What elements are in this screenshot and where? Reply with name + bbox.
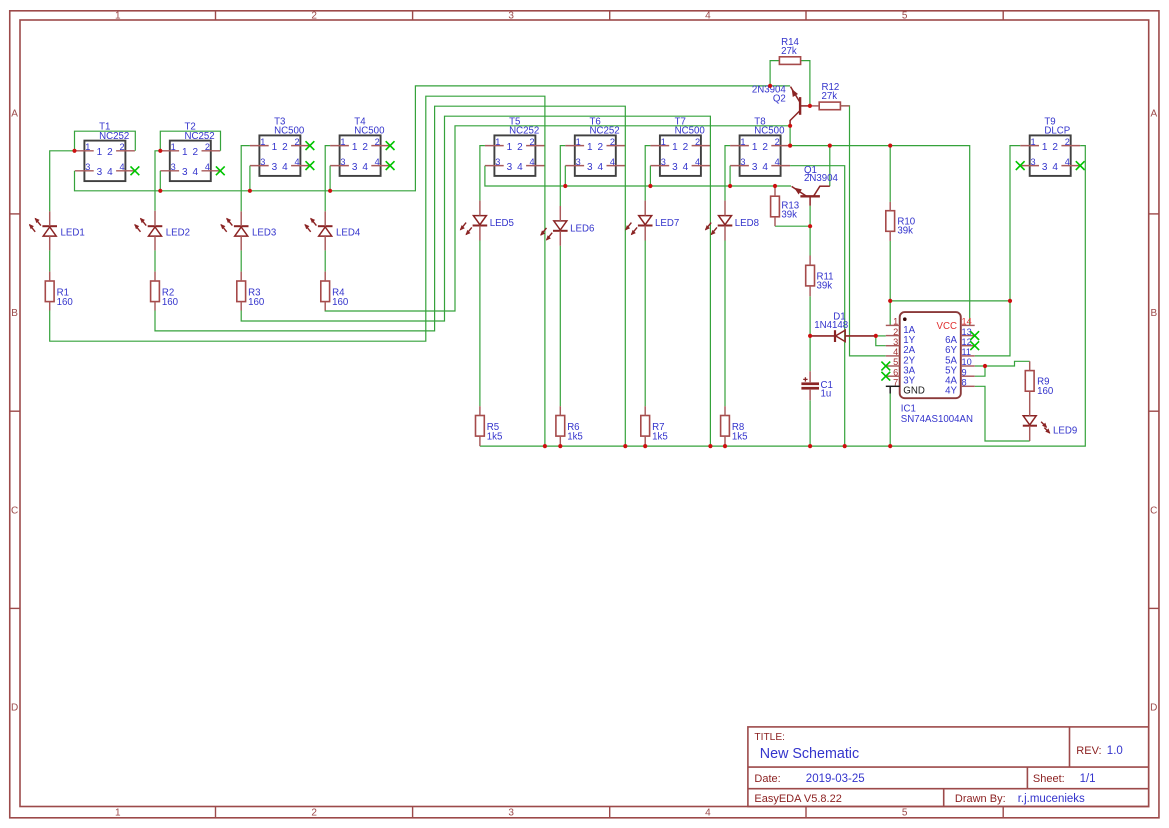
component T8 (NC500) 4-pin box [730,116,790,175]
svg-text:2: 2 [610,137,615,147]
wire: Q1 base node down to R11 [809,226,811,255]
svg-text:LED8: LED8 [735,218,759,229]
wire: LED4 to R4 [324,250,326,271]
svg-text:Drawn By:: Drawn By: [955,793,1006,805]
svg-text:2: 2 [375,137,380,147]
svg-text:5: 5 [902,11,908,22]
svg-text:C: C [1150,505,1157,516]
svg-text:8: 8 [962,378,967,388]
wire: LED8 to R8 [724,241,726,407]
svg-text:2: 2 [598,142,604,153]
svg-text:6: 6 [893,367,898,377]
LED LED6 (pointing down) [540,221,594,241]
junction T6 pin3 / bus [563,184,567,188]
junction R10 / VCC rail [888,144,892,148]
wire: R13 bottom to Q1 base node [775,225,810,227]
junction IC pins 9-10 node [983,364,987,368]
svg-text:New Schematic: New Schematic [760,746,859,762]
svg-text:4: 4 [107,167,113,178]
IC1 SN74AS1004AN [881,312,979,425]
wire: 1A node to T9 pin1 riser [890,300,1010,302]
svg-text:1: 1 [752,142,758,153]
svg-text:4: 4 [375,157,380,167]
transistor Q1 2N3904 [792,165,839,226]
wire: LED5 to R5 [479,241,481,407]
svg-text:NC500: NC500 [354,126,385,137]
junction T9 pin1 riser / 1A node [1008,299,1012,303]
junction T3 pin3 / bus [248,189,252,193]
component T9 (DLCP) 4-pin box [1016,116,1085,175]
svg-text:1: 1 [1031,137,1036,147]
svg-text:1: 1 [171,142,176,152]
resistor R5 (1k5) [476,416,503,443]
svg-text:1k5: 1k5 [652,431,668,442]
svg-text:3: 3 [171,162,176,172]
svg-text:4: 4 [294,157,299,167]
svg-text:A: A [11,108,18,119]
svg-text:3: 3 [507,162,513,173]
svg-text:1k5: 1k5 [567,431,583,442]
svg-text:1/1: 1/1 [1080,773,1096,785]
svg-text:NC252: NC252 [509,126,539,137]
junction R6 / gnd bus [558,444,562,448]
svg-text:4Y: 4Y [945,386,957,397]
svg-text:1: 1 [340,137,345,147]
svg-text:4: 4 [683,162,689,173]
component T4 (NC500) 4-pin box [330,116,394,175]
junction Q2 base / R12 / R14 [808,104,812,108]
wire: T4 pin3 to bus [329,166,331,191]
svg-text:3: 3 [576,157,581,167]
svg-text:3: 3 [508,11,514,22]
no-connect X on T4 pin 2 [386,141,395,150]
svg-text:4: 4 [119,162,124,172]
svg-text:1: 1 [1042,142,1048,153]
svg-text:2: 2 [695,137,700,147]
wire: Q2 collector to VCC rail [789,124,791,146]
svg-text:3: 3 [1031,157,1036,167]
svg-text:2: 2 [107,147,113,158]
svg-text:NC252: NC252 [99,131,129,142]
svg-text:1: 1 [672,142,678,153]
svg-text:3: 3 [672,162,678,173]
component T3 (NC500) 4-pin box [250,116,314,175]
wire: LED7 to R7 [644,241,646,407]
svg-text:2: 2 [775,137,780,147]
svg-text:GND: GND [903,386,925,397]
svg-text:EasyEDA V5.8.22: EasyEDA V5.8.22 [754,793,841,805]
svg-text:5: 5 [893,357,898,367]
svg-text:NC252: NC252 [590,126,620,137]
svg-text:LED1: LED1 [61,227,85,238]
LED LED1 (pointing up) [29,218,85,239]
LED LED3 (pointing up) [220,218,276,239]
svg-text:1u: 1u [821,388,832,399]
svg-text:1: 1 [507,142,513,153]
wire: T6 pin3 to middle bus [564,166,566,186]
svg-text:r.j.mucenieks: r.j.mucenieks [1018,793,1085,805]
svg-text:1: 1 [272,142,278,153]
wire: T9 pin1 riser / IC pin11 [975,146,1021,356]
wire: T1-T4 pin3 bus rising to Q2 emitter line [75,86,791,191]
junction R10 / 1A node [888,299,892,303]
svg-text:SN74AS1004AN: SN74AS1004AN [901,414,973,425]
svg-text:VCC: VCC [937,321,957,332]
svg-text:4: 4 [193,167,199,178]
svg-text:DLCP: DLCP [1044,126,1070,137]
svg-text:14: 14 [962,317,972,327]
svg-text:LED3: LED3 [252,227,276,238]
svg-text:1: 1 [182,147,188,158]
svg-text:4: 4 [205,162,210,172]
svg-text:4: 4 [1065,157,1070,167]
junction Q1 base / R13 [808,224,812,228]
no-connect X on IC1 pin6 [881,372,890,381]
wire: 1A node down to IC pin1 [889,301,891,326]
component T2 (NC252) 4-pin box [160,122,224,182]
svg-text:Date:: Date: [754,773,780,785]
svg-text:TITLE:: TITLE: [754,732,785,743]
svg-text:4: 4 [1052,162,1058,173]
svg-text:2: 2 [311,11,317,22]
wire: R10 top from VCC rail [889,146,891,202]
svg-text:LED7: LED7 [655,218,679,229]
svg-text:7: 7 [893,378,898,388]
svg-text:1: 1 [115,11,121,22]
svg-text:2: 2 [683,142,689,153]
svg-text:4: 4 [362,162,368,173]
no-connect X on IC1 pin12 [970,341,979,350]
svg-text:5: 5 [902,808,908,819]
svg-text:2: 2 [193,147,199,158]
svg-text:LED5: LED5 [490,218,514,229]
svg-text:3: 3 [587,162,593,173]
component T5 (NC252) 4-pin box [485,116,545,175]
svg-text:1: 1 [576,137,581,147]
wire: LED4 branch from T4 pin1 [325,146,330,212]
svg-text:LED2: LED2 [166,227,190,238]
wire: D1 anode to IC pin2 [874,335,886,337]
no-connect X on IC1 pin5 [881,362,890,371]
resistor R13 (39k) [771,196,800,221]
svg-text:1: 1 [115,808,121,819]
svg-text:D: D [1150,703,1157,714]
wire: T2 pin3 to bus [159,171,161,191]
wire: R12 right lead to IC pin4 [841,106,886,356]
svg-text:3: 3 [272,162,278,173]
wire: R3 bottom to T7 pin2 riser [241,116,710,446]
svg-text:3: 3 [893,337,898,347]
svg-text:NC252: NC252 [185,131,215,142]
svg-text:3: 3 [352,162,358,173]
svg-text:2: 2 [893,327,898,337]
wire: LED6 to R6 [559,246,561,406]
junction R7 / gnd bus [643,444,647,448]
junction D1 cathode node [808,334,812,338]
svg-text:LED9: LED9 [1053,426,1077,437]
component T6 (NC252) 4-pin box [565,116,625,175]
wire: R11 bottom to D1 node [809,296,811,336]
wire: R10 bottom to 1A node [889,241,891,301]
no-connect X on T1 pin 4 [131,166,140,175]
wire: T8 pin4 to bottom bus [790,166,845,446]
resistor R14 (27k) [779,57,800,65]
resistor R2 (160) [151,281,179,308]
junction IC1 GND / gnd bus [888,444,892,448]
svg-text:2: 2 [1052,142,1058,153]
wire: IC pin7 GND to ground bus [889,386,891,393]
svg-text:D: D [11,703,18,714]
no-connect X on T3 pin 4 [306,161,315,170]
svg-text:2: 2 [205,142,210,152]
no-connect X on T3 pin 2 [306,141,315,150]
no-connect X on T4 pin 4 [386,161,395,170]
svg-text:2: 2 [294,137,299,147]
svg-text:9: 9 [962,367,967,377]
wire: C1 bottom to ground bus [809,400,811,446]
no-connect X on IC1 pin13 [970,331,979,340]
wire: bottom ground bus [480,146,1085,447]
resistor R4 (160) [321,281,349,308]
svg-text:LED6: LED6 [570,223,594,234]
LED LED5 (pointing down) [460,216,514,236]
svg-text:3: 3 [85,162,90,172]
wire: LED3 branch from T3 pin1 [241,146,250,212]
junction T5 riser / gnd bus [543,444,547,448]
svg-text:LED4: LED4 [336,227,361,238]
svg-text:1: 1 [495,137,500,147]
wire: D1 node jog to IC pin3 [876,336,886,346]
svg-text:1: 1 [661,137,666,147]
svg-text:REV:: REV: [1076,745,1101,757]
svg-text:160: 160 [332,297,349,308]
resistor R1 (160) [45,281,73,308]
svg-text:160: 160 [162,297,179,308]
svg-text:3: 3 [661,157,666,167]
svg-text:A: A [1150,108,1157,119]
wire: IC pin8 to LED9 cathode [975,386,1030,441]
wire: T5 pin3 to middle bus [485,166,791,186]
svg-text:3: 3 [752,162,758,173]
svg-text:160: 160 [1037,386,1054,397]
junction R8 / gnd bus [723,444,727,448]
svg-text:39k: 39k [897,226,913,237]
resistor R9 (160) [1025,371,1054,397]
svg-text:NC500: NC500 [754,126,785,137]
lead stubs of R5-R8 [479,406,481,415]
junction T8 pin3 / bus [728,184,732,188]
junction T2 pin1 [158,149,162,153]
svg-text:2: 2 [119,142,124,152]
wire: IC pin10 to R9 [975,361,1030,366]
svg-text:3: 3 [495,157,500,167]
svg-text:160: 160 [248,297,265,308]
wire: LED1 branch from T1 pin1 [50,151,75,212]
wire: T7 pin3 to middle bus [649,166,651,186]
svg-text:Q2: Q2 [773,94,786,105]
svg-text:NC500: NC500 [274,126,305,137]
wire: LED2 branch from T2 pin1 [155,151,160,211]
component T7 (NC500) 4-pin box [650,116,710,175]
svg-text:NC500: NC500 [675,126,706,137]
svg-text:27k: 27k [822,91,838,102]
resistor R6 (1k5) [556,416,583,443]
svg-text:3: 3 [260,157,265,167]
wire: D1 node down to C1 [809,336,811,371]
LED LED2 (pointing up) [134,218,190,239]
wire: LED2 to R2 [154,250,156,271]
wire: LED3 to R3 [240,250,242,271]
svg-text:2: 2 [762,142,768,153]
svg-text:1: 1 [587,142,593,153]
svg-text:2: 2 [517,142,523,153]
svg-text:39k: 39k [817,281,833,292]
svg-text:4: 4 [598,162,604,173]
svg-text:1: 1 [260,137,265,147]
wire: R14 right lead down to Q2 base node [800,61,810,106]
svg-text:1k5: 1k5 [732,431,748,442]
junction T7 pin3 / bus [648,184,652,188]
wire: VCC rail to IC pin14 [790,146,970,326]
diode D1 1N4148 [810,311,874,342]
LED LED4 (pointing up) [304,218,360,239]
svg-text:1k5: 1k5 [487,431,503,442]
wire: R4 bottom to Q2 collector line [325,126,790,311]
no-connect X on T9 pin 4 [1076,161,1085,170]
svg-text:B: B [11,308,18,319]
svg-text:3: 3 [182,167,188,178]
svg-text:IC1: IC1 [901,403,916,414]
resistor R8 (1k5) [721,416,748,443]
wire: R1 bottom to T5 pin2 riser [50,96,545,446]
svg-text:3: 3 [740,157,745,167]
svg-text:3: 3 [97,167,103,178]
wire: R2 bottom to T6 pin2 riser [155,106,625,446]
no-connect X on T2 pin 4 [216,166,225,175]
svg-text:4: 4 [529,157,534,167]
resistor R10 (39k) [886,211,916,237]
wire: Q1 collector to VCC rail [829,146,831,187]
junction R13 / bus [773,184,777,188]
svg-text:4: 4 [282,162,288,173]
wire: LED7 branch from T7 pin1 [645,146,650,201]
junction T1 pin1 [72,149,76,153]
capacitor C1 1u [801,371,832,400]
component T1 (NC252) 4-pin box [75,122,139,182]
svg-text:4: 4 [517,162,523,173]
junction T8 pin4 line / gnd bus [843,444,847,448]
svg-text:4: 4 [762,162,768,173]
svg-text:2: 2 [1065,137,1070,147]
svg-text:2N3904: 2N3904 [804,173,839,184]
svg-text:3: 3 [340,157,345,167]
svg-text:B: B [1150,308,1157,319]
wire: T3 pin3 to bus [249,166,251,191]
svg-text:3: 3 [1042,162,1048,173]
junction T7 riser / gnd bus [708,444,712,448]
svg-text:C: C [11,505,18,516]
svg-text:4: 4 [705,808,711,819]
svg-text:1.0: 1.0 [1107,745,1123,757]
junction D1 anode / IC pins 2-3 [874,334,878,338]
junction Q1 collector / VCC rail [828,144,832,148]
lead stubs of R1-R4 [49,272,51,281]
svg-text:1: 1 [740,137,745,147]
wire: T8 pin3 to middle bus [729,166,731,186]
wire: LED6 branch from T6 pin1 [560,146,565,206]
junction T6 riser / gnd bus [623,444,627,448]
resistor R11 (39k) [806,265,834,291]
svg-text:2: 2 [311,808,317,819]
svg-text:1: 1 [352,142,358,153]
svg-text:27k: 27k [781,46,797,57]
svg-text:2: 2 [529,137,534,147]
title block [748,727,1149,807]
LED LED7 (pointing down) [625,216,679,236]
junction T4 pin3 / bus [328,189,332,193]
LED LED9 (pointing down, arrows right) [1023,416,1077,437]
resistor R12 (27k) [819,102,840,110]
svg-text:10: 10 [962,357,972,367]
junction C1 / gnd bus [808,444,812,448]
no-connect X on T9 pin 3 [1016,161,1025,170]
wire: LED8 branch from T8 pin1 [725,146,730,201]
junction T2 pin3 / bus [158,189,162,193]
resistor R7 (1k5) [641,416,668,443]
svg-text:4: 4 [695,157,700,167]
resistor R3 (160) [237,281,265,308]
junction R14 left / emitter line [768,84,772,88]
svg-text:2019-03-25: 2019-03-25 [806,773,865,785]
svg-text:3: 3 [508,808,514,819]
svg-text:1N4148: 1N4148 [814,320,848,331]
wire: LED5 branch from T5 pin1 [480,146,485,201]
transistor Q2 2N3904 [752,85,810,126]
svg-text:4: 4 [775,157,780,167]
svg-text:Sheet:: Sheet: [1033,773,1065,785]
svg-text:2: 2 [282,142,288,153]
svg-text:1: 1 [893,317,898,327]
wire: LED1 to R1 [49,250,51,271]
svg-text:1: 1 [85,142,90,152]
junction T8 pin2 / VCC rail [788,144,792,148]
svg-text:2: 2 [362,142,368,153]
wire: IC pin9 to pin10 node [975,366,985,376]
svg-text:1: 1 [97,147,103,158]
LED LED8 (pointing down) [705,216,759,236]
wire: T1 pin1-pin2 loop [75,131,136,151]
svg-text:4: 4 [610,157,615,167]
svg-text:4: 4 [893,347,898,357]
svg-text:11: 11 [962,347,972,357]
wire: R14 left lead down to emitter line [770,61,779,86]
svg-text:39k: 39k [781,210,797,221]
junction Q2 collector / R4 line [788,124,792,128]
svg-text:160: 160 [57,297,74,308]
wire: T2 pin1-pin2 loop [160,131,220,151]
svg-text:4: 4 [705,11,711,22]
